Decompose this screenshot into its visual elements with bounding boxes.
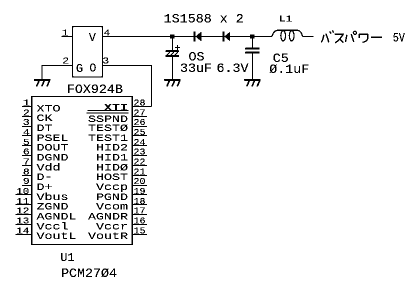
svg-text:6.3V: 6.3V	[217, 62, 249, 77]
svg-text:22: 22	[134, 158, 146, 169]
svg-text:4: 4	[104, 28, 111, 38]
svg-text:3: 3	[23, 118, 30, 129]
svg-text:18: 18	[134, 197, 146, 208]
svg-text:9: 9	[23, 177, 30, 188]
svg-text:13: 13	[16, 216, 29, 227]
svg-text:7: 7	[23, 158, 30, 169]
svg-text:V: V	[89, 32, 96, 45]
svg-text:PCM27Ø4: PCM27Ø4	[61, 267, 117, 282]
svg-text:VoutL: VoutL	[37, 231, 77, 243]
svg-text:26: 26	[134, 118, 146, 129]
svg-text:28: 28	[134, 99, 146, 110]
svg-text:15: 15	[134, 226, 146, 237]
svg-text:U1: U1	[60, 251, 74, 265]
svg-text:16: 16	[134, 216, 146, 227]
svg-text:Ø.1uF: Ø.1uF	[269, 63, 309, 78]
svg-text:XTI: XTI	[104, 102, 128, 114]
svg-text:L1: L1	[279, 15, 292, 25]
svg-text:21: 21	[134, 167, 146, 178]
svg-text:8: 8	[23, 167, 30, 178]
svg-text:33uF: 33uF	[180, 62, 212, 77]
svg-text:23: 23	[134, 148, 146, 159]
svg-text:27: 27	[134, 108, 146, 119]
svg-text:24: 24	[134, 138, 146, 149]
svg-text:VoutR: VoutR	[88, 231, 128, 243]
svg-text:14: 14	[16, 226, 29, 237]
svg-text:4: 4	[23, 128, 30, 139]
svg-text:25: 25	[134, 128, 146, 139]
svg-text:FOX924B: FOX924B	[67, 83, 123, 98]
svg-text:5: 5	[23, 138, 30, 149]
svg-text:12: 12	[16, 207, 29, 218]
svg-text:3: 3	[103, 57, 110, 67]
svg-text:17: 17	[134, 207, 146, 218]
svg-text:6: 6	[23, 148, 30, 159]
svg-text:1: 1	[62, 28, 69, 38]
svg-text:11: 11	[16, 197, 29, 208]
svg-text:1S1588 x 2: 1S1588 x 2	[164, 12, 244, 27]
svg-text:2: 2	[23, 108, 30, 119]
svg-text:10: 10	[16, 187, 29, 198]
svg-text:G: G	[76, 63, 83, 76]
svg-text:1: 1	[23, 99, 30, 110]
svg-text:20: 20	[134, 177, 146, 188]
svg-text:2: 2	[62, 57, 69, 67]
svg-text:5V: 5V	[393, 31, 405, 46]
svg-text:O: O	[89, 62, 96, 75]
svg-text:19: 19	[134, 187, 146, 198]
